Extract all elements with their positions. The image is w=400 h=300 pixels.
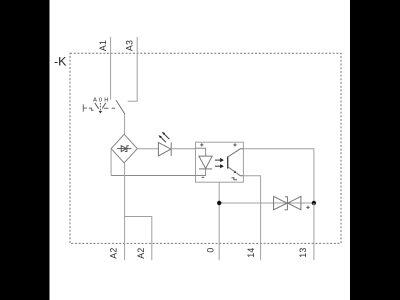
svg-text:0: 0 <box>206 247 216 252</box>
svg-text:A3: A3 <box>124 40 134 51</box>
junction node left <box>217 201 221 205</box>
wire terminal A3 with stub <box>128 37 138 101</box>
wire blade to rectifier <box>124 114 126 134</box>
switch blade contact <box>116 100 125 114</box>
polarity + near TVS <box>306 206 309 209</box>
phototransistor base <box>227 156 229 168</box>
wire node to terminal 13 <box>313 203 315 260</box>
actuator link solid <box>83 107 87 109</box>
svg-text:13: 13 <box>298 247 308 257</box>
opto LED cathode return <box>111 169 206 176</box>
LED emission arrow 2 <box>161 137 166 142</box>
svg-text:A0H: A0H <box>93 98 110 104</box>
light arrow 1 <box>215 159 220 161</box>
bridge rectifier diamond <box>111 134 137 163</box>
junction node right <box>312 201 316 205</box>
bridge inner suppressor diode <box>117 148 131 150</box>
svg-text:14: 14 <box>246 247 256 257</box>
polarity + top-right <box>233 143 236 146</box>
release V symbol <box>95 103 106 109</box>
wire branch to second A2 <box>125 217 152 261</box>
TVS center bar <box>285 197 288 210</box>
phototransistor emitter <box>228 167 235 172</box>
svg-text:A1: A1 <box>98 40 108 51</box>
light arrow 2 <box>215 165 220 167</box>
release dashed vertical <box>99 103 101 111</box>
actuator latch step <box>89 108 94 110</box>
wire bridge to LED <box>137 148 158 150</box>
optocoupler U1 box <box>196 142 244 182</box>
wire terminal A1 <box>110 37 112 100</box>
wire collector to node 13 <box>243 149 314 203</box>
LED emission arrow 1 <box>164 134 169 139</box>
TVS suppressor right half <box>288 196 301 209</box>
white content panel <box>50 0 351 300</box>
relay boundary dashed box -K <box>70 53 341 243</box>
wire emitter to terminal 14 <box>243 176 260 261</box>
phototransistor collector <box>228 149 244 157</box>
wire LED to optocoupler <box>171 148 195 150</box>
LED D1 <box>158 142 171 156</box>
svg-text:-K: -K <box>54 54 67 68</box>
release down arrowhead <box>99 111 103 114</box>
actuator dashed link <box>104 107 115 109</box>
svg-text:A2: A2 <box>136 247 146 258</box>
pulse symbol bottom-right <box>232 178 237 180</box>
wire terminal A2 first <box>124 163 126 260</box>
polarity - bottom-left <box>202 176 205 178</box>
in-box wire to LED anode <box>196 148 206 156</box>
actuator tick <box>82 104 84 111</box>
opto LED <box>199 156 212 168</box>
polarity + top-left <box>200 143 203 146</box>
wire opto bottom to terminal 0 <box>218 182 220 260</box>
wire bridge minus leg <box>110 149 112 176</box>
svg-text:A2: A2 <box>108 247 118 258</box>
wire node 0 to node 13 <box>219 202 314 204</box>
TVS suppressor left half <box>274 196 287 209</box>
